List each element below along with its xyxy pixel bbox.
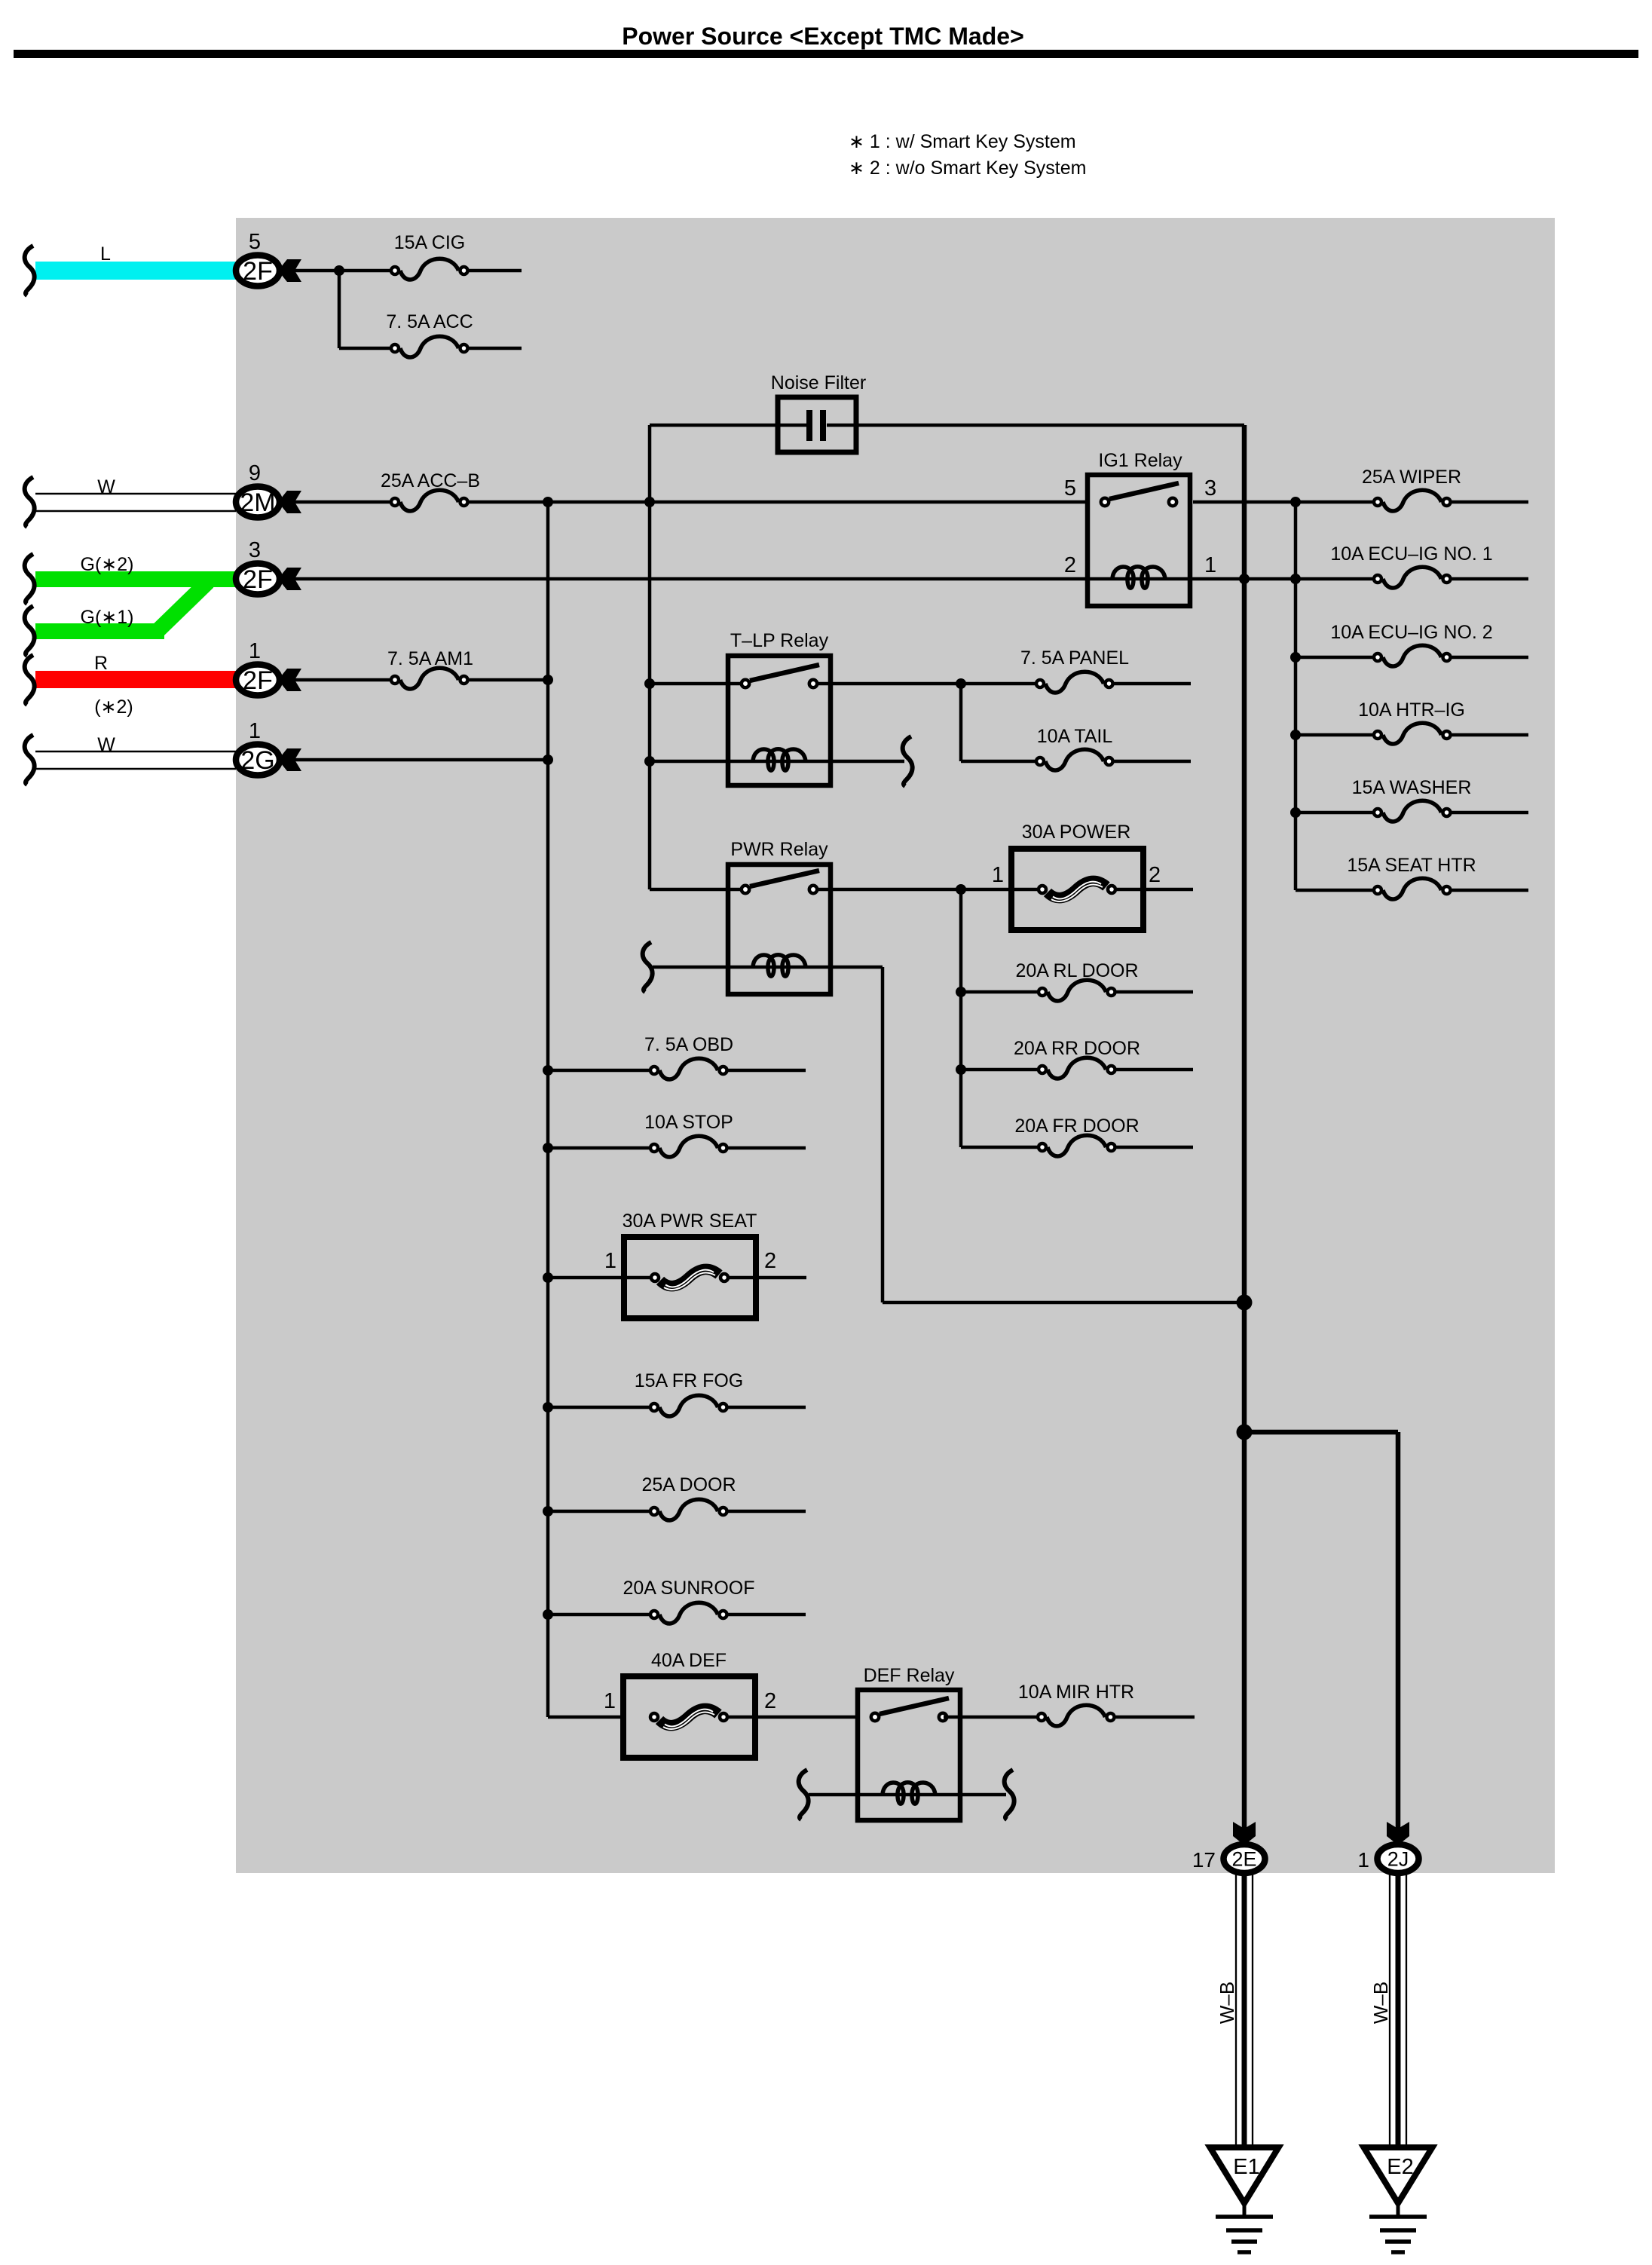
fuse 15A SEAT HTR	[1374, 878, 1451, 899]
wire from 15A SEAT HTR fuse	[1452, 889, 1529, 892]
fuse 20A RR DOOR	[1039, 1058, 1115, 1079]
svg-text:7. 5A OBD: 7. 5A OBD	[644, 1034, 733, 1055]
vertical to 2J	[1396, 1432, 1401, 1829]
svg-text:10A ECU–IG NO. 2: 10A ECU–IG NO. 2	[1330, 622, 1492, 643]
wire from 7. 5A OBD fuse	[729, 1069, 806, 1073]
svg-text:1: 1	[992, 863, 1004, 887]
svg-text:1: 1	[1204, 553, 1216, 577]
junction 10A STOP	[543, 1143, 553, 1153]
ground E2	[1364, 2147, 1433, 2252]
wire W (white, to 2G)	[35, 751, 236, 769]
bus vertical x1275 doors	[959, 889, 963, 1147]
svg-text:10A MIR HTR: 10A MIR HTR	[1018, 1682, 1134, 1703]
wire	[295, 678, 390, 682]
wire to 15A FR FOG fuse	[548, 1406, 649, 1410]
wire down to ACC fuse	[338, 271, 341, 348]
wire break (T-LP coil)	[903, 736, 913, 786]
svg-text:15A WASHER: 15A WASHER	[1352, 777, 1472, 798]
fuse 20A RL DOOR	[1039, 980, 1115, 1001]
wire IG1 pin3 to WIPER fuse	[1193, 500, 1372, 504]
svg-text:E1: E1	[1233, 2155, 1259, 2179]
wire break (DEF coil right)	[1005, 1770, 1014, 1820]
svg-text:W: W	[97, 476, 115, 497]
junction 2G row	[543, 754, 553, 765]
junction AM1 row	[543, 675, 553, 685]
fuse 10A HTR-IG	[1374, 723, 1451, 744]
svg-text:PWR Relay: PWR Relay	[730, 839, 828, 860]
arrow into 2F	[278, 259, 301, 282]
fuse 10A ECU-IG NO. 2	[1374, 645, 1451, 666]
wire DEF switch to MIR HTR	[944, 1716, 1036, 1719]
svg-text:17: 17	[1192, 1848, 1216, 1872]
junction noise-filter branch	[644, 497, 655, 507]
wire from 20A RR DOOR fuse	[1117, 1068, 1194, 1072]
svg-text:2F: 2F	[243, 666, 273, 695]
relay T-LP box	[728, 656, 831, 785]
wire	[470, 678, 549, 682]
relay PWR switch	[742, 871, 819, 893]
junction CIG/ACC split	[334, 265, 344, 276]
relay IG1 box	[1088, 475, 1190, 606]
arrow into 2M	[278, 491, 301, 513]
junction 15A FR FOG	[543, 1402, 553, 1413]
svg-text:2M: 2M	[240, 488, 275, 517]
svg-text:25A ACC–B: 25A ACC–B	[381, 470, 480, 491]
connector 2G pin1	[236, 745, 280, 776]
wire from 20A FR DOOR fuse	[1117, 1146, 1194, 1149]
wire	[295, 269, 339, 273]
arrow into 2J	[1387, 1822, 1409, 1845]
fusible link 30A POWER	[1011, 849, 1143, 930]
svg-text:W–B: W–B	[1216, 1982, 1238, 2024]
wire to 40A DEF	[548, 1716, 623, 1719]
fuse 15A CIG	[391, 259, 468, 280]
wire to 7. 5A OBD fuse	[548, 1069, 649, 1073]
wire from 20A SUNROOF fuse	[729, 1613, 806, 1617]
junction POWER/door split	[956, 884, 966, 895]
svg-text:∗ 1 : w/ Smart Key System: ∗ 1 : w/ Smart Key System	[849, 131, 1076, 152]
wire G merge diagonal	[157, 582, 208, 632]
ground E1	[1210, 2147, 1279, 2252]
relay T-LP coil	[753, 749, 806, 771]
junction RL door	[956, 987, 966, 997]
wire down to TAIL	[959, 684, 963, 761]
wire PWR switch to 30A POWER	[818, 888, 1037, 892]
fuse 7. 5A AM1	[391, 668, 468, 689]
wire from 30A POWER	[1117, 888, 1193, 892]
fuse 25A WIPER	[1374, 490, 1451, 511]
wire break (G*2 wire)	[25, 554, 35, 604]
svg-text:10A STOP: 10A STOP	[644, 1112, 733, 1133]
svg-text:E2: E2	[1387, 2155, 1413, 2179]
wire from 10A HTR-IG fuse	[1452, 733, 1529, 737]
fusible link 40A DEF	[623, 1676, 755, 1758]
wire PWR coil row	[653, 966, 883, 969]
svg-text:10A TAIL: 10A TAIL	[1037, 726, 1113, 747]
svg-text:Power Source <Except TMC Made>: Power Source <Except TMC Made>	[622, 23, 1024, 50]
junction right bus ECU-IG1	[1290, 574, 1301, 584]
wire to TAIL fuse	[961, 760, 1035, 764]
wire break (R wire)	[25, 655, 35, 705]
wire G(*2) (green)	[35, 571, 236, 587]
svg-text:W: W	[97, 734, 115, 755]
junction IG1 pin1 / ground bus	[1239, 574, 1250, 584]
relay PWR box	[728, 865, 831, 994]
svg-text:10A ECU–IG NO. 1: 10A ECU–IG NO. 1	[1330, 543, 1492, 565]
svg-text:2F: 2F	[243, 565, 273, 594]
wire break (W wire 2)	[25, 735, 35, 785]
title rule	[14, 50, 1638, 58]
wire to 20A RL DOOR fuse	[961, 990, 1037, 994]
junction PWR SEAT	[543, 1272, 553, 1283]
svg-text:30A PWR SEAT: 30A PWR SEAT	[623, 1211, 757, 1232]
fuse 10A STOP	[650, 1136, 727, 1157]
junction fuse-column top	[543, 497, 553, 507]
branch to 2J	[1244, 1430, 1398, 1435]
svg-text:15A CIG: 15A CIG	[394, 232, 466, 253]
arrow into 2E	[1233, 1822, 1256, 1845]
wire DEF coil row	[809, 1793, 1006, 1797]
svg-text:7. 5A ACC: 7. 5A ACC	[386, 311, 473, 332]
svg-text:10A HTR–IG: 10A HTR–IG	[1358, 699, 1465, 721]
junction right bus y1078	[1290, 807, 1301, 818]
junction right bus top	[1290, 497, 1301, 507]
fuse 25A DOOR	[650, 1499, 727, 1520]
svg-text:2: 2	[1149, 863, 1161, 887]
wire from noise filter	[827, 424, 1244, 427]
gray junction-block panel	[236, 218, 1555, 1873]
junction PANEL/TAIL split	[956, 678, 966, 689]
wire break (DEF coil left)	[799, 1770, 809, 1820]
wire	[470, 347, 522, 350]
junction x862 T-LP coil	[644, 756, 655, 767]
connector 2F pin5	[236, 256, 280, 286]
svg-text:3: 3	[1204, 476, 1216, 500]
junction x862 T-LP switch	[644, 678, 655, 689]
svg-text:G(∗2): G(∗2)	[81, 554, 134, 575]
wire to 10A HTR-IG fuse	[1296, 733, 1372, 737]
svg-text:2J: 2J	[1387, 1848, 1409, 1871]
fuse 20A FR DOOR	[1039, 1135, 1115, 1156]
wire to T-LP switch	[650, 682, 740, 686]
wire to 15A WASHER fuse	[1296, 811, 1372, 815]
relay PWR coil	[753, 955, 806, 977]
svg-text:∗ 2 : w/o Smart Key System: ∗ 2 : w/o Smart Key System	[849, 158, 1086, 179]
wire 2G row	[295, 758, 548, 762]
fuse 7. 5A PANEL	[1036, 672, 1113, 693]
bus vertical x727	[546, 502, 550, 1717]
svg-text:2: 2	[1064, 553, 1076, 577]
wire W-B (E2)	[1390, 1874, 1406, 2149]
svg-text:7. 5A AM1: 7. 5A AM1	[387, 648, 473, 669]
wire L (cyan)	[35, 262, 236, 280]
wire R (red)	[35, 671, 236, 688]
junction RR door	[956, 1064, 966, 1075]
wire to ground bus y1728	[883, 1301, 1244, 1305]
junction 20A SUNROOF	[543, 1609, 553, 1620]
wire W (white, to 2M)	[35, 494, 236, 511]
wire T-LP coil row	[650, 760, 904, 764]
connector 2F pin3	[236, 564, 280, 595]
wire to 10A ECU-IG NO. 2 fuse	[1296, 656, 1372, 660]
connector 2E	[1224, 1844, 1265, 1873]
arrow into 2F pin1	[278, 669, 301, 691]
fuse 10A ECU-IG NO. 1	[1374, 567, 1451, 588]
wire to 20A RR DOOR fuse	[961, 1068, 1037, 1072]
svg-text:2: 2	[764, 1249, 776, 1273]
connector 2M pin9	[236, 487, 280, 518]
svg-text:(∗2): (∗2)	[94, 696, 133, 718]
svg-text:5: 5	[1064, 476, 1076, 500]
relay DEF switch	[871, 1698, 949, 1721]
wire from 10A ECU-IG NO. 2 fuse	[1452, 656, 1529, 660]
relay DEF box	[858, 1690, 960, 1820]
arrow into 2G	[278, 748, 301, 771]
wire from PANEL fuse	[1115, 682, 1192, 686]
junction 7. 5A OBD	[543, 1065, 553, 1076]
bus vertical x1719	[1294, 502, 1298, 890]
wire from 15A WASHER fuse	[1452, 811, 1529, 815]
connector 2J	[1378, 1844, 1419, 1873]
wire from 30A PWR SEAT	[730, 1276, 806, 1280]
svg-text:W–B: W–B	[1369, 1982, 1392, 2024]
svg-text:2F: 2F	[243, 257, 273, 286]
wire to 25A DOOR fuse	[548, 1510, 649, 1514]
ground bus vertical x1651	[1242, 425, 1247, 1829]
svg-text:5: 5	[249, 230, 261, 254]
relay IG1 switch	[1101, 483, 1179, 506]
fuse 15A WASHER	[1374, 800, 1451, 822]
svg-text:G(∗1): G(∗1)	[81, 607, 134, 628]
wire IG1 pin1 to ECU-IG fuse	[1193, 577, 1372, 581]
wire to 20A FR DOOR fuse	[961, 1146, 1037, 1149]
wire break (PWR coil)	[643, 942, 653, 992]
svg-text:Noise Filter: Noise Filter	[771, 372, 866, 393]
wire break (W wire)	[25, 477, 35, 527]
branch vertical x862	[648, 425, 652, 889]
svg-text:20A FR DOOR: 20A FR DOOR	[1014, 1116, 1139, 1137]
wire break (G*1 wire)	[25, 606, 35, 656]
wire to 20A SUNROOF fuse	[548, 1613, 649, 1617]
fuse 15A FR FOG	[650, 1395, 727, 1416]
fuse 20A SUNROOF	[650, 1602, 727, 1624]
junction ground bus y1728	[1237, 1295, 1253, 1311]
wire ACC-B row to IG1 pin5	[470, 500, 1088, 504]
svg-text:3: 3	[249, 538, 261, 562]
svg-text:25A WIPER: 25A WIPER	[1362, 467, 1461, 488]
fuse 10A MIR HTR	[1038, 1705, 1115, 1726]
svg-text:2: 2	[764, 1689, 776, 1713]
svg-text:7. 5A PANEL: 7. 5A PANEL	[1020, 647, 1129, 669]
svg-text:1: 1	[249, 639, 261, 663]
relay DEF coil	[883, 1783, 935, 1804]
wire T-LP switch to PANEL	[818, 682, 1035, 686]
svg-text:R: R	[94, 653, 108, 674]
fusible link 30A PWR SEAT	[624, 1237, 756, 1318]
svg-text:20A RL DOOR: 20A RL DOOR	[1015, 960, 1138, 981]
wire from 10A ECU-IG NO. 1 fuse	[1452, 577, 1529, 581]
junction 2J branch	[1237, 1425, 1253, 1440]
junction 25A DOOR	[543, 1506, 553, 1517]
wire 40A DEF to DEF relay	[729, 1716, 858, 1719]
relay IG1 coil	[1112, 567, 1165, 589]
wire G(*1) (green)	[35, 623, 164, 639]
fuse 7. 5A ACC	[391, 336, 468, 357]
wire from 15A FR FOG fuse	[729, 1406, 806, 1410]
svg-text:40A DEF: 40A DEF	[651, 1650, 727, 1671]
fuse 25A ACC-B	[391, 490, 468, 511]
wire break (L wire)	[25, 246, 35, 295]
svg-text:30A POWER: 30A POWER	[1022, 822, 1131, 843]
svg-text:1: 1	[604, 1689, 616, 1713]
svg-text:20A SUNROOF: 20A SUNROOF	[623, 1578, 754, 1599]
arrow into 2F pin3	[278, 568, 301, 590]
svg-text:1: 1	[249, 719, 261, 743]
fuse 10A TAIL	[1036, 749, 1113, 770]
svg-text:25A DOOR: 25A DOOR	[641, 1474, 736, 1495]
wire to noise filter	[650, 424, 809, 427]
svg-text:L: L	[100, 243, 111, 265]
wire 2F row to IG1 pin2	[295, 577, 1088, 581]
fuse 7. 5A OBD	[650, 1058, 727, 1079]
svg-text:2E: 2E	[1231, 1848, 1256, 1871]
wire W-B (E1)	[1236, 1874, 1253, 2149]
svg-text:1: 1	[604, 1249, 616, 1273]
wire from TAIL fuse	[1115, 760, 1192, 764]
svg-text:T–LP Relay: T–LP Relay	[730, 630, 829, 651]
junction right bus y872	[1290, 652, 1301, 663]
wire through IG1 coil	[1088, 577, 1193, 581]
svg-text:20A RR DOOR: 20A RR DOOR	[1014, 1038, 1140, 1059]
wire x862 into PWR switch	[650, 888, 740, 892]
wire	[339, 269, 390, 273]
wire from MIR HTR fuse	[1116, 1716, 1195, 1719]
svg-text:IG1 Relay: IG1 Relay	[1098, 450, 1182, 471]
svg-text:1: 1	[1357, 1848, 1369, 1872]
wire	[339, 347, 390, 350]
wire 2M to ACC-B fuse	[295, 500, 390, 504]
svg-text:DEF Relay: DEF Relay	[864, 1665, 955, 1686]
wire from 10A STOP fuse	[729, 1146, 806, 1150]
svg-text:15A SEAT HTR: 15A SEAT HTR	[1347, 855, 1476, 876]
wire from 25A DOOR fuse	[729, 1510, 806, 1514]
connector 2F pin1	[236, 665, 280, 696]
svg-text:15A FR FOG: 15A FR FOG	[635, 1370, 743, 1391]
wire from 25A WIPER fuse	[1452, 500, 1529, 504]
noise filter (capacitor)	[778, 397, 856, 452]
junction right bus y975	[1290, 730, 1301, 740]
relay T-LP switch	[742, 665, 819, 687]
wire down x1171	[881, 967, 885, 1302]
wire to 10A STOP fuse	[548, 1146, 649, 1150]
wire	[470, 269, 522, 273]
wire to 30A PWR SEAT	[548, 1276, 650, 1280]
svg-text:9: 9	[249, 461, 261, 485]
wire to 15A SEAT HTR fuse	[1296, 889, 1372, 892]
wire from 20A RL DOOR fuse	[1117, 990, 1194, 994]
svg-text:2G: 2G	[240, 746, 274, 775]
